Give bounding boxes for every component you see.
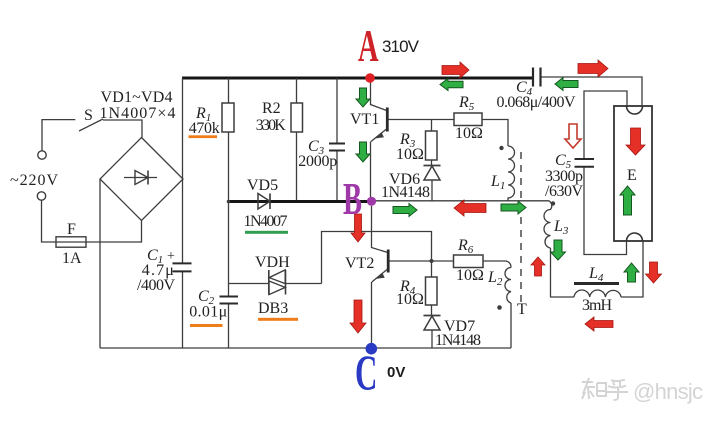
junction dot VT2 base bbox=[430, 259, 434, 263]
junction dot R1/B-line bbox=[227, 200, 231, 204]
terminal circle lower bbox=[37, 192, 45, 200]
svg-text:L3: L3 bbox=[553, 218, 569, 237]
wire: left vertical rail x=183 (top rail to C1 top) bbox=[182, 78, 184, 263]
current arrow green down at VT1 collector bbox=[356, 88, 370, 107]
wire: C3 bottom leg to B line bbox=[336, 151, 338, 202]
diac VDH left bar bbox=[268, 270, 270, 295]
wire: diac right to riser bbox=[286, 283, 322, 285]
current arrow red right on rail bbox=[442, 62, 469, 78]
svg-text:VDH: VDH bbox=[255, 254, 290, 271]
bridge rectifier diamond VD1~VD4 bbox=[100, 138, 183, 221]
svg-text:470k: 470k bbox=[189, 120, 220, 137]
svg-text:DB3: DB3 bbox=[258, 300, 288, 317]
wire: C2 bottom to bottom rail bbox=[228, 304, 230, 349]
diode VD7 triangle bbox=[424, 316, 440, 330]
current arrow green left below rail bbox=[440, 79, 463, 91]
svg-text:~220V: ~220V bbox=[10, 172, 58, 189]
wire: VT2 emitter down to node C bbox=[371, 282, 373, 343]
current arrow green down at L3 bottom bbox=[551, 240, 566, 260]
transistor VT2 emitter with arrow bbox=[372, 270, 387, 283]
svg-text:0V: 0V bbox=[387, 364, 405, 381]
wire: R4 bottom to VD7 bbox=[431, 305, 433, 316]
capacitor C1 plates bbox=[173, 263, 192, 271]
svg-text:0.01μ: 0.01μ bbox=[189, 304, 227, 321]
svg-text:1N4148: 1N4148 bbox=[381, 184, 430, 201]
wire: B line thick segment R1-junction to node B bbox=[229, 200, 369, 203]
svg-text:B: B bbox=[343, 174, 362, 224]
lamp E top filament arc bbox=[627, 106, 643, 114]
inductor L3 winding with top corner bbox=[544, 201, 552, 248]
current arrow red up left of L3 bbox=[531, 257, 545, 276]
svg-text:10Ω: 10Ω bbox=[396, 146, 424, 163]
inductor L4 winding bbox=[574, 290, 621, 297]
svg-text:L4: L4 bbox=[588, 265, 604, 284]
wire: R3 top leg bbox=[431, 120, 433, 132]
capacitor C4 plates bbox=[533, 68, 541, 87]
transistor VT1 emitter with arrow bbox=[371, 129, 387, 142]
underline orange 470k bbox=[189, 135, 218, 138]
wire: R3 bottom to VD6 bbox=[431, 160, 433, 166]
diode VD6 cathode bar bbox=[424, 165, 441, 167]
svg-text:VD5: VD5 bbox=[247, 177, 278, 194]
wire: L2 bottom to bottom rail bbox=[510, 303, 512, 348]
diode VD7 cathode bar bbox=[424, 315, 441, 317]
current arrow red left below L4 bbox=[585, 317, 613, 331]
wire: node B down to VT2 collector bbox=[372, 206, 388, 252]
svg-text:F: F bbox=[67, 221, 76, 238]
underline orange 0.01u bbox=[190, 324, 223, 327]
svg-text:10Ω: 10Ω bbox=[456, 267, 484, 284]
wire: R4 top leg bbox=[431, 261, 433, 277]
svg-text:1N4007: 1N4007 bbox=[244, 213, 288, 230]
capacitor C3 plates bbox=[329, 144, 345, 151]
diode VD5 cathode bar bbox=[269, 194, 271, 210]
diode VD5 triangle bbox=[258, 194, 270, 210]
fuse through line bbox=[52, 241, 90, 243]
diac VDH right bar bbox=[285, 270, 287, 295]
terminal circle upper bbox=[38, 151, 46, 159]
svg-text:VT2: VT2 bbox=[345, 255, 374, 272]
underline green 1N4007 bbox=[245, 231, 288, 234]
svg-text:VT1: VT1 bbox=[350, 111, 379, 128]
wire: L4 left end to L3 bottom leg bbox=[550, 296, 574, 298]
wire: fuse to bridge bottom vertex bbox=[90, 221, 142, 243]
lamp E tube bbox=[614, 106, 652, 241]
wire: left vertical rail x=183 (C1 bottom to bottom rail) bbox=[182, 271, 184, 348]
current arrow red down below B bbox=[351, 214, 365, 242]
wire: lamp top-left pin up and left to C5 top bbox=[584, 91, 627, 159]
diac VDH upper triangle bbox=[269, 270, 285, 284]
inductor L2 winding bbox=[505, 268, 511, 304]
svg-text:R5: R5 bbox=[458, 94, 475, 113]
wire: switch to bridge top vertex bbox=[103, 120, 142, 138]
wire: C2 top junction to diac left bbox=[229, 283, 269, 285]
svg-text:E: E bbox=[627, 167, 637, 184]
capacitor C5 plates bbox=[575, 159, 595, 167]
diac VDH lower triangle bbox=[269, 281, 285, 295]
wire: C5 bottom down then right to lamp bottom-left pin bbox=[584, 167, 627, 255]
bridge inner diode lead bbox=[124, 177, 157, 179]
node C dot bbox=[366, 343, 378, 355]
current arrow red down inside lamp bbox=[626, 128, 645, 155]
resistor R2 body bbox=[291, 103, 303, 132]
wire: R2 top leg bbox=[296, 78, 298, 103]
wire: C2 junction line B down through C2 top bbox=[228, 202, 230, 297]
svg-text:R6: R6 bbox=[457, 237, 474, 256]
wire: VT1 collector leg from node A bbox=[371, 78, 387, 111]
svg-text:310V: 310V bbox=[382, 37, 420, 56]
svg-text:T: T bbox=[517, 301, 527, 318]
wire: source lower terminal to fuse bbox=[42, 200, 53, 242]
wire: bottom 0V rail bbox=[100, 347, 511, 349]
wire: diac DB3 to VT2 base junction bbox=[322, 232, 432, 284]
svg-text:S: S bbox=[84, 107, 93, 124]
node A dot bbox=[365, 73, 375, 83]
wire: top 310V rail (thick) bbox=[182, 77, 532, 80]
current arrow red right after C4 bbox=[578, 60, 608, 77]
underline orange DB3 bbox=[258, 318, 298, 321]
current arrow green right near L1 bottom bbox=[501, 201, 526, 214]
lamp E bottom filament arc bbox=[627, 233, 643, 241]
svg-text:R2: R2 bbox=[262, 100, 281, 117]
wire: VD6 anode to B line bbox=[431, 180, 433, 201]
phase dot L2 bbox=[497, 305, 502, 310]
svg-text:A: A bbox=[358, 21, 379, 71]
svg-text:1A: 1A bbox=[62, 250, 82, 267]
wire: C3 top leg bbox=[336, 78, 338, 143]
transformer T core dashed line bbox=[520, 152, 522, 305]
wire: VT2 base to junction bbox=[390, 260, 454, 262]
current arrow red left on B line bbox=[454, 200, 486, 216]
svg-text:VD1~VD4: VD1~VD4 bbox=[101, 89, 173, 106]
svg-text:L1: L1 bbox=[490, 173, 505, 192]
current arrow green left below C4 wire bbox=[555, 78, 578, 91]
svg-text:0.068μ/400V: 0.068μ/400V bbox=[497, 94, 576, 111]
wire: VT1 emitter leg down to node B bbox=[370, 142, 372, 198]
current arrow open red down above C5 bbox=[565, 124, 581, 148]
wire: L3 bottom leg bbox=[550, 248, 552, 297]
resistor R3 body bbox=[426, 131, 438, 160]
svg-text:C: C bbox=[355, 345, 377, 400]
phase dot L3 bbox=[551, 201, 555, 205]
wire: R6 right to L2 top bbox=[483, 261, 511, 268]
diode VD6 triangle bbox=[424, 166, 440, 180]
svg-text:10Ω: 10Ω bbox=[396, 291, 424, 308]
svg-text:3mH: 3mH bbox=[582, 297, 612, 314]
transistor VT1 base bar bbox=[386, 108, 389, 132]
svg-text:2000p: 2000p bbox=[298, 153, 337, 170]
svg-text:1N4007×4: 1N4007×4 bbox=[100, 105, 176, 122]
svg-text:10Ω: 10Ω bbox=[455, 125, 483, 142]
resistor R5 body bbox=[454, 113, 482, 126]
current arrow green down at VT1 emitter bbox=[356, 142, 370, 162]
wire: R1 top leg bbox=[228, 78, 230, 103]
phase dot L1 bbox=[499, 146, 503, 150]
bridge inner diode triangle bbox=[135, 171, 148, 185]
node B dot bbox=[367, 197, 376, 206]
resistor R1 body bbox=[222, 103, 234, 132]
wire: R2 bottom leg to B line bbox=[296, 132, 298, 202]
wire: VT1 base to R5 and R3 junction bbox=[389, 119, 455, 121]
inductor L4 core bar bbox=[574, 282, 619, 285]
resistor R6 body bbox=[454, 255, 484, 268]
wire: R5 right to L1 top bbox=[482, 120, 508, 147]
svg-text:330K: 330K bbox=[256, 117, 286, 134]
switch S blade bbox=[79, 119, 103, 131]
svg-text:@hnsjc: @hnsjc bbox=[633, 379, 703, 404]
wire: lamp bottom-right pin down to L4 right end bbox=[621, 241, 643, 297]
transistor VT2 base bar bbox=[387, 250, 390, 273]
watermark zhihu @hnsjc bbox=[582, 378, 628, 400]
svg-text:1N4148: 1N4148 bbox=[435, 332, 481, 349]
wire: VD7 anode to bottom rail bbox=[431, 330, 433, 348]
svg-text:L2: L2 bbox=[487, 269, 503, 288]
wire: source upper terminal to switch bbox=[42, 120, 75, 152]
wire: node B to L3 top corner bbox=[375, 200, 549, 202]
svg-text:/400V: /400V bbox=[137, 277, 175, 294]
current arrow green right on B line bbox=[393, 204, 417, 217]
current arrow red down below lamp bbox=[646, 262, 662, 283]
svg-text:/630V: /630V bbox=[545, 183, 583, 200]
inductor L1 winding bbox=[508, 146, 515, 201]
bridge inner diode bar bbox=[147, 171, 149, 185]
fuse F body bbox=[56, 237, 86, 247]
current arrow red down above C bbox=[350, 300, 366, 333]
wire: R1 bottom leg to B line bbox=[228, 132, 230, 202]
wire: rail after C4 to lamp top right bbox=[541, 77, 642, 106]
wire: bridge left vertex down to bottom rail bbox=[99, 179, 101, 348]
resistor R4 body bbox=[426, 277, 438, 305]
capacitor C2 plates bbox=[220, 297, 239, 304]
current arrow green up inside lamp bbox=[620, 186, 635, 215]
current arrow green up below lamp bbox=[624, 263, 639, 282]
